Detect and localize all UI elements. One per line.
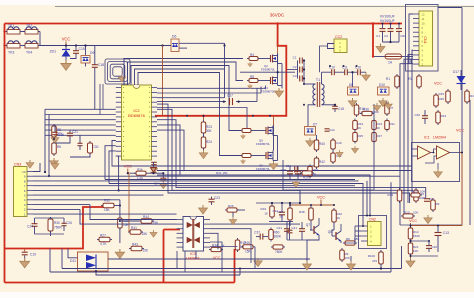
resistor R9c 10K bbox=[340, 248, 345, 262]
svg-text:10: 10 bbox=[22, 170, 26, 174]
capacitor C31 bbox=[284, 229, 290, 232]
svg-text:R8: R8 bbox=[346, 237, 350, 241]
svg-text:C1: C1 bbox=[293, 56, 297, 60]
resistor R46 15K bbox=[241, 245, 255, 249]
svg-text:R35: R35 bbox=[439, 97, 445, 101]
svg-text:IC3: IC3 bbox=[190, 252, 196, 256]
svg-text:C34: C34 bbox=[285, 164, 291, 168]
ground below C28 bbox=[150, 166, 157, 173]
svg-text:FDD8670L: FDD8670L bbox=[261, 90, 275, 94]
resistor R42b bbox=[314, 156, 319, 169]
wire riser x224 bbox=[224, 46, 226, 70]
wire mid-bottom links bbox=[210, 223, 300, 225]
svg-text:15K: 15K bbox=[104, 208, 111, 212]
capacitor CB3 D40 bbox=[398, 24, 400, 29]
svg-text:CC2: CC2 bbox=[335, 35, 342, 39]
capacitor C1H bbox=[287, 230, 293, 233]
svg-text:R33: R33 bbox=[441, 114, 447, 118]
op-amp wires bbox=[412, 148, 418, 150]
svg-text:C40: C40 bbox=[336, 141, 342, 145]
ground below R24 bbox=[199, 150, 208, 159]
wire bottom-right joins bbox=[411, 240, 430, 242]
ground below C14 bbox=[159, 181, 167, 189]
svg-text:150K: 150K bbox=[413, 234, 420, 238]
svg-text:C17: C17 bbox=[227, 94, 233, 98]
svg-text:R41: R41 bbox=[131, 226, 137, 230]
ground left mid bbox=[51, 161, 59, 169]
resistor R28 15K bbox=[118, 216, 123, 230]
svg-text:C21: C21 bbox=[72, 130, 78, 134]
svg-text:CN3: CN3 bbox=[14, 163, 21, 167]
wire right edge bus bbox=[461, 8, 463, 226]
IC2 body BD69876 bbox=[122, 85, 152, 160]
wire red drop to capacitor bank bbox=[372, 24, 374, 58]
svg-text:R46: R46 bbox=[244, 241, 250, 245]
svg-text:C24: C24 bbox=[27, 225, 33, 229]
red 36VDC top bus wire bbox=[5, 23, 403, 25]
capacitor C34 pair bbox=[295, 167, 298, 173]
op-amp B bbox=[437, 146, 450, 159]
transistor Q8 bbox=[332, 231, 341, 241]
svg-text:R36: R36 bbox=[363, 108, 369, 112]
capacitor C16 bbox=[54, 125, 56, 132]
svg-text:R44: R44 bbox=[143, 215, 149, 219]
svg-text:4.7K: 4.7K bbox=[100, 242, 107, 246]
ground below C16 bbox=[51, 135, 59, 143]
svg-text:VCC: VCC bbox=[456, 129, 464, 133]
wire loop bundle to IC2 bbox=[105, 59, 130, 84]
svg-text:0V100UF: 0V100UF bbox=[380, 19, 395, 23]
resistor R100 470 bbox=[379, 250, 384, 266]
svg-text:C31: C31 bbox=[276, 226, 282, 230]
resistor R36 1.2K bbox=[130, 172, 136, 174]
red bottom bus wire bbox=[5, 282, 235, 284]
wire red riser to R17 bbox=[234, 249, 236, 283]
svg-text:R6: R6 bbox=[57, 145, 61, 149]
ground below R26b bbox=[229, 217, 237, 225]
resistor R33 150K bbox=[436, 110, 441, 125]
capacitor C21 bbox=[69, 130, 71, 133]
svg-text:VCC: VCC bbox=[434, 82, 442, 86]
svg-text:VCC: VCC bbox=[317, 196, 325, 200]
svg-text:100K: 100K bbox=[372, 110, 379, 114]
ground right-mid 2 bbox=[385, 102, 393, 110]
page margins bbox=[0, 0, 474, 5]
resistor R8b 68K bbox=[343, 241, 357, 245]
resistor R23 30K bbox=[201, 120, 206, 135]
svg-text:R2: R2 bbox=[408, 77, 412, 81]
wire IC2 right bus A bbox=[157, 86, 266, 89]
wire mid bus lines bbox=[157, 165, 412, 167]
svg-text:VCC: VCC bbox=[62, 37, 71, 42]
wire bus drops to CN2 bbox=[366, 181, 368, 216]
resistor R24 30K bbox=[201, 135, 206, 150]
capacitor C40b bbox=[426, 246, 432, 249]
svg-text:R4: R4 bbox=[250, 53, 254, 57]
resistor R11 bbox=[385, 119, 390, 132]
svg-text:10K: 10K bbox=[345, 256, 350, 260]
choke TK3 bbox=[5, 41, 22, 48]
wire brown riser bbox=[162, 46, 164, 116]
resistor R23c 10K bbox=[409, 193, 422, 197]
wire CN1 risers bbox=[409, 14, 413, 64]
wire drops below LM2901 bbox=[176, 251, 178, 269]
resistor R8 51 bbox=[247, 79, 260, 83]
svg-text:R27: R27 bbox=[377, 134, 383, 138]
svg-text:D9: D9 bbox=[90, 51, 94, 55]
svg-text:15K: 15K bbox=[123, 223, 130, 227]
ground inside LM2904 box bbox=[434, 169, 443, 178]
svg-text:1A: 1A bbox=[388, 61, 393, 65]
ground below D10 bbox=[379, 98, 388, 107]
capacitor C19 bbox=[24, 249, 26, 252]
capacitor C26 bbox=[62, 223, 67, 225]
resistor R36b 100K bbox=[360, 111, 374, 115]
svg-text:C16: C16 bbox=[58, 133, 64, 137]
ground bottom-right bbox=[406, 258, 415, 267]
svg-text:36VDC: 36VDC bbox=[270, 13, 285, 18]
IC3 pins bbox=[177, 219, 184, 221]
svg-text:R26: R26 bbox=[228, 204, 234, 208]
svg-text:TK3: TK3 bbox=[8, 51, 14, 55]
MOSFET Q5 FDD8670L bbox=[240, 129, 253, 133]
wire CN3 fanout bbox=[33, 175, 400, 177]
svg-text:D17: D17 bbox=[453, 70, 459, 74]
MOSFET Q2 FDD8670L bbox=[260, 58, 267, 60]
wire IC2 left input lines bbox=[45, 108, 116, 110]
connector CN2 box bbox=[359, 216, 387, 249]
wire IC2 right bus C bbox=[157, 97, 225, 99]
capacitor CB2 bbox=[390, 24, 392, 29]
svg-text:D11: D11 bbox=[70, 259, 76, 263]
resistor R5 4.7K bbox=[52, 124, 57, 139]
wire Q5/Q6 drains bbox=[272, 125, 275, 127]
svg-text:R19: R19 bbox=[387, 193, 393, 197]
svg-text:750K: 750K bbox=[275, 250, 283, 254]
diode pack D6 bbox=[171, 39, 179, 52]
resistor R41 15K bbox=[128, 230, 143, 235]
wire IC2 top risers to gate drive bbox=[124, 59, 243, 86]
svg-text:10K: 10K bbox=[413, 211, 418, 215]
wire T1 primary leads bbox=[304, 83, 316, 85]
svg-text:C19: C19 bbox=[30, 253, 36, 257]
ground below C37 bbox=[254, 258, 263, 267]
svg-text:LM2904: LM2904 bbox=[433, 136, 446, 140]
svg-text:C2: C2 bbox=[384, 34, 388, 38]
ground right low bbox=[424, 215, 433, 224]
capacitor C15 bbox=[75, 46, 77, 51]
transistor Q7 bbox=[310, 225, 319, 235]
capacitor C18 bbox=[85, 63, 87, 67]
wire lines into IC3 bbox=[72, 213, 177, 215]
svg-text:C2: C2 bbox=[293, 65, 297, 69]
choke TK4 bbox=[23, 41, 40, 48]
svg-text:10: 10 bbox=[422, 21, 426, 25]
ground big mid bbox=[115, 249, 124, 258]
resistor R32 15K bbox=[101, 203, 116, 208]
diode pack D11 bbox=[78, 252, 109, 271]
svg-text:R9: R9 bbox=[436, 202, 440, 206]
resistor R44 15K bbox=[139, 219, 154, 224]
MOSFET Q6 FDD8670L bbox=[240, 154, 253, 158]
svg-text:2K: 2K bbox=[279, 215, 283, 219]
resistor R37 2K bbox=[288, 206, 293, 222]
svg-text:R26: R26 bbox=[303, 176, 309, 180]
capacitor C30b bbox=[422, 116, 428, 119]
resistor R61 750K bbox=[271, 245, 285, 249]
resistor R40b bbox=[314, 138, 319, 152]
ground small mid bbox=[336, 150, 343, 157]
ground below C19 bbox=[20, 258, 30, 268]
wire T1 secondary leads bbox=[321, 72, 323, 84]
svg-text:11: 11 bbox=[422, 17, 425, 21]
connector CN1 bbox=[419, 11, 433, 66]
wire cap bank bottom bbox=[383, 41, 400, 43]
resistor R14 150K bbox=[408, 226, 413, 241]
capacitor C2 bbox=[300, 67, 303, 73]
resistor R21 10K bbox=[408, 241, 413, 256]
svg-text:15K: 15K bbox=[245, 250, 252, 254]
wire CN2 leads bbox=[355, 225, 361, 227]
capacitor C37 bbox=[260, 234, 263, 240]
wire D11 in bbox=[68, 249, 78, 258]
svg-text:D10: D10 bbox=[379, 83, 385, 87]
svg-text:C30: C30 bbox=[93, 145, 99, 149]
resistor R40 1K bbox=[332, 208, 337, 224]
svg-text:IC1: IC1 bbox=[424, 136, 430, 140]
wire left risers bbox=[44, 109, 46, 172]
svg-text:R11: R11 bbox=[390, 122, 396, 126]
svg-text:LM2901: LM2901 bbox=[186, 257, 200, 261]
op-amp A bbox=[418, 146, 431, 159]
resistor R26b bbox=[225, 208, 239, 212]
svg-text:10K: 10K bbox=[420, 190, 425, 194]
resistor R35 150K bbox=[434, 93, 439, 108]
CC2 block bbox=[334, 39, 347, 53]
wire misc mid links bbox=[316, 135, 318, 140]
svg-text:10K: 10K bbox=[413, 249, 418, 253]
svg-text:R40: R40 bbox=[319, 142, 325, 146]
diode pack D8 bbox=[348, 87, 359, 95]
ground under T1 area bbox=[292, 180, 299, 187]
wire riser to R28 bbox=[119, 206, 121, 244]
wire CC2 leads bbox=[328, 44, 335, 49]
svg-text:R15: R15 bbox=[438, 92, 444, 96]
svg-text:C13: C13 bbox=[443, 231, 449, 235]
resistor R27 4.7K bbox=[97, 237, 112, 242]
capacitor C12 bbox=[279, 212, 285, 215]
ground output stage 2 bbox=[347, 261, 356, 270]
ground below D7 bbox=[306, 138, 315, 147]
svg-text:R27: R27 bbox=[100, 234, 106, 238]
svg-text:C41: C41 bbox=[291, 226, 297, 230]
wire lower-left joins bbox=[34, 218, 36, 221]
ground output stage 1 bbox=[303, 261, 312, 270]
resistor R38 2K bbox=[309, 206, 314, 222]
svg-text:R30: R30 bbox=[54, 221, 60, 225]
wire Q2/Q4 drains bbox=[277, 53, 279, 55]
svg-text:C26: C26 bbox=[66, 221, 72, 225]
svg-text:R23: R23 bbox=[412, 190, 418, 194]
resistor R4 51 bbox=[247, 57, 260, 61]
capacitor C31 bbox=[295, 171, 301, 174]
ground below Q6 bbox=[269, 161, 278, 170]
junction dots bbox=[186, 115, 188, 117]
svg-text:R8: R8 bbox=[250, 75, 254, 79]
resistor R6 47K bbox=[52, 141, 57, 156]
svg-text:VCC: VCC bbox=[409, 219, 417, 223]
capacitor C13 bbox=[435, 233, 442, 236]
svg-text:C18: C18 bbox=[338, 107, 344, 111]
svg-text:R25: R25 bbox=[358, 134, 364, 138]
wire IC2 right bus B bbox=[157, 87, 261, 94]
svg-text:750R: 750R bbox=[54, 226, 62, 230]
capacitor C41 bbox=[299, 229, 305, 232]
resistor C30 electrolytic bbox=[88, 141, 93, 155]
resistor R2 bbox=[417, 74, 422, 89]
wire loop risers bbox=[99, 84, 101, 115]
diode D12 bbox=[153, 162, 155, 167]
wire choke joins bbox=[5, 31, 8, 33]
wire IC2 right stubs to middle bus bbox=[157, 104, 410, 203]
resistor R10 10K bbox=[354, 103, 359, 117]
svg-text:1K: 1K bbox=[264, 212, 268, 216]
wire crossing y72 bbox=[240, 71, 295, 73]
capacitor C3 bbox=[300, 76, 303, 82]
svg-text:15K: 15K bbox=[142, 232, 149, 236]
ground at CN3 top bbox=[26, 160, 34, 168]
svg-text:R43: R43 bbox=[132, 243, 138, 247]
wire red lower-left loop bbox=[5, 207, 105, 249]
ground inside red loop bbox=[275, 88, 284, 97]
svg-text:R1: R1 bbox=[386, 77, 390, 81]
capacitor C23 bbox=[211, 197, 213, 200]
resistor R47 bbox=[465, 89, 470, 104]
svg-text:C3: C3 bbox=[293, 74, 297, 78]
connector CN3 bbox=[14, 167, 28, 217]
svg-text:30K: 30K bbox=[206, 129, 213, 133]
svg-text:D8: D8 bbox=[349, 83, 353, 87]
wire IC2 left stubs down bbox=[112, 141, 157, 167]
resistor R20b 10K bbox=[401, 214, 415, 218]
resistor R34 1K bbox=[209, 247, 223, 251]
wire VCC bottom-right bbox=[410, 223, 412, 258]
diode pack D10 bbox=[378, 87, 390, 95]
svg-text:VCC: VCC bbox=[213, 256, 221, 260]
ground above IC3 bbox=[199, 205, 208, 214]
wire D11 out bbox=[108, 258, 310, 260]
resistor R7 bbox=[385, 102, 390, 116]
svg-text:ZD1: ZD1 bbox=[50, 50, 57, 54]
wire IC2 right bus E bbox=[157, 108, 247, 131]
svg-text:T1: T1 bbox=[316, 78, 320, 82]
svg-text:2K: 2K bbox=[377, 126, 381, 130]
ground below ZD1 bbox=[61, 60, 71, 70]
wire brown riser left bbox=[128, 172, 130, 232]
svg-text:C23: C23 bbox=[214, 196, 220, 200]
resistor R30 750R bbox=[48, 217, 53, 233]
MOSFET Q4 FDD8670L bbox=[260, 80, 267, 82]
wire LM2904 brown net bbox=[460, 153, 463, 226]
capacitor C1 bbox=[300, 58, 303, 64]
resistor R20 100K bbox=[414, 188, 419, 203]
capacitor C16b bbox=[358, 69, 361, 75]
fuse F1 bbox=[373, 56, 385, 58]
wire main rail y46 bbox=[40, 45, 171, 47]
svg-text:Q8: Q8 bbox=[328, 230, 332, 234]
IC3 LM2904 box bbox=[412, 143, 460, 182]
wire D8 top lead bbox=[352, 72, 354, 87]
resistor R1 bbox=[395, 74, 400, 89]
svg-text:12: 12 bbox=[422, 12, 426, 16]
ground below R6 bbox=[50, 158, 59, 167]
capacitor C25 bbox=[287, 171, 293, 174]
svg-text:C18: C18 bbox=[98, 63, 104, 67]
capacitor C10 bbox=[322, 71, 332, 73]
connector CN2 bbox=[368, 222, 382, 246]
ground right-mid 1 bbox=[373, 103, 381, 111]
wire CN1 box to right bus bbox=[438, 7, 462, 9]
top page edge line bbox=[55, 6, 474, 8]
svg-text:2K: 2K bbox=[358, 126, 362, 130]
svg-text:CN2: CN2 bbox=[369, 218, 376, 222]
svg-text:CN1: CN1 bbox=[423, 36, 427, 43]
svg-text:D7: D7 bbox=[313, 123, 317, 127]
svg-text:TK2: TK2 bbox=[26, 24, 32, 28]
ground below D8 bbox=[348, 98, 357, 107]
choke TK1 bbox=[5, 27, 22, 34]
resistor R19 1K bbox=[270, 204, 275, 219]
capacitor C9 bbox=[424, 199, 430, 202]
svg-text:R37: R37 bbox=[277, 210, 283, 214]
svg-text:15K: 15K bbox=[143, 249, 150, 253]
diode pack D9 bbox=[85, 46, 87, 56]
resistor R27b bbox=[372, 131, 377, 144]
capacitor C24 bbox=[34, 221, 36, 224]
capacitor C28 bbox=[151, 162, 157, 164]
svg-text:Q7: Q7 bbox=[306, 223, 310, 227]
wire red stub to opto IC bbox=[164, 229, 181, 231]
ground right-mid 3 bbox=[351, 146, 358, 153]
ground above IC2 bbox=[118, 75, 126, 83]
capacitor C17 bbox=[230, 98, 233, 105]
svg-text:R47: R47 bbox=[470, 94, 474, 98]
wire bottom buses bbox=[62, 268, 402, 270]
capacitor C40/C42 pair bbox=[331, 138, 336, 151]
ground right of caps bbox=[362, 72, 371, 81]
capacitor C14 bbox=[162, 172, 164, 174]
wire cap bank verticals bbox=[297, 61, 299, 79]
svg-text:D6: D6 bbox=[172, 35, 176, 39]
svg-text:TK1: TK1 bbox=[8, 24, 14, 28]
wire drop near IC3 bbox=[210, 242, 222, 272]
capacitor C18b bbox=[334, 105, 336, 106]
capacitor CB1 bbox=[382, 24, 384, 29]
svg-text:R36: R36 bbox=[137, 168, 143, 172]
capacitor C44 bbox=[325, 129, 330, 131]
svg-text:1K: 1K bbox=[337, 216, 341, 220]
resistor R15 150K bbox=[446, 89, 451, 104]
resistor R26 1K bbox=[300, 171, 314, 175]
ground mid-left bbox=[150, 230, 157, 237]
svg-text:R42: R42 bbox=[319, 160, 325, 164]
svg-text:C40: C40 bbox=[432, 245, 438, 249]
transformer T1 bbox=[313, 78, 324, 107]
red left border wire bbox=[4, 24, 6, 283]
svg-text:C37: C37 bbox=[254, 231, 260, 235]
svg-text:C44: C44 bbox=[329, 128, 335, 132]
IC3 LM2901 body bbox=[183, 217, 204, 252]
